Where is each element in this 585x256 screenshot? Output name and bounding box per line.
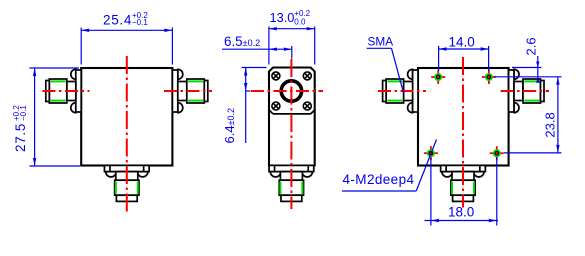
right SMA connector view1 [172, 69, 207, 112]
dimension 27.5 dim line [34, 68, 36, 166]
flange tab notch left view2 [274, 165, 276, 171]
dimension 6.5 dim line with text landing [222, 48, 292, 50]
centerline vertical view1 [126, 56, 128, 214]
dimension 14.0 extension lines [438, 46, 440, 71]
barrel section right [514, 82, 523, 101]
dimension 13.0 dim line [269, 28, 315, 30]
dimension 14.0 dim line [439, 48, 489, 50]
cap left [383, 81, 387, 102]
ear bottom-left [408, 103, 413, 113]
svg-text:23.8: 23.8 [543, 112, 558, 137]
screw circle top-right [303, 72, 311, 80]
cap bottom view2 [281, 195, 302, 201]
screw circle bottom-right [303, 102, 311, 110]
bottom SMA connector view1 [104, 165, 149, 201]
mounting hole top-right [482, 70, 496, 84]
dimension 13.0 extension lines [268, 27, 270, 65]
ear bottom-left [71, 103, 76, 113]
dimension 18.0 extension lines [430, 158, 432, 226]
ear top-right [178, 69, 183, 79]
nut section bottom view1 [115, 180, 139, 195]
nut section right [523, 79, 541, 103]
green nut edges left connector [51, 80, 66, 82]
bottom flange strip view1 [104, 165, 149, 171]
barrel section left [404, 82, 413, 101]
cap left [46, 81, 50, 102]
ear bottom-right view1 [137, 172, 148, 177]
svg-text:−0.1: −0.1 [132, 18, 148, 27]
ear bottom-left view3 [442, 172, 453, 177]
dimension 25.4 dim line [81, 29, 172, 31]
svg-text:0.0: 0.0 [294, 18, 306, 27]
central SMA ring view2 [281, 81, 301, 101]
screw circle top-left [272, 72, 280, 80]
flange tab notch right view2 [307, 165, 309, 171]
centerline horizontal right connector view1 [164, 90, 212, 92]
dimension text 27.5 +0.2/-0.1 rotated [12, 105, 28, 152]
barrel section bottom view3 [452, 172, 474, 181]
green nut edges bottom connector view3 [451, 182, 453, 194]
barrel section left [67, 82, 76, 101]
dimension 23.8 dim line [557, 77, 559, 153]
svg-text:2.6: 2.6 [524, 37, 539, 55]
green nut edges bottom connector view1 [115, 182, 117, 194]
centerline horizontal view2 [251, 90, 323, 92]
ear bottom-left view2 [270, 172, 281, 177]
body view1 [81, 68, 172, 166]
dimension 27.5 extension lines [30, 67, 80, 69]
centerline horizontal left connector view1 [43, 90, 90, 92]
dimension 2.6/23.8 extension line hole row [494, 76, 562, 78]
dimension 2.6 dim line [537, 56, 539, 80]
bottom SMA connector view2 [269, 165, 314, 201]
cap bottom view3 [453, 195, 474, 201]
cap right [204, 81, 208, 102]
svg-text:SMA: SMA [368, 35, 394, 49]
mounting hole bottom-left [424, 146, 438, 160]
dimension 2.6 extension line body top [512, 67, 542, 69]
dimension 6.4 dim line [245, 68, 247, 144]
centerline horizontal right connector view3 [501, 90, 549, 92]
extension line center view2 [291, 46, 293, 59]
green nut edges right connector [188, 80, 203, 82]
bottom flange strip view2 [269, 165, 314, 171]
nut section bottom view2 [279, 180, 303, 195]
arrow landing at centerline [246, 90, 251, 92]
barrel section bottom view1 [116, 172, 138, 181]
nut section left [386, 79, 404, 103]
flange plate right [509, 70, 514, 112]
ear bottom-right [178, 103, 183, 113]
green nut edges right connector view3 [524, 80, 539, 82]
nut section bottom view3 [451, 180, 475, 195]
body outline view2 with chamfered flange corners [269, 68, 315, 166]
ear bottom-right view3 [474, 172, 485, 177]
flange plate left [76, 70, 81, 112]
ear top-left [71, 69, 76, 79]
green nut edges left connector view3 [387, 80, 402, 82]
right SMA connector view3 [509, 69, 544, 112]
dimension 18.0 dim line [425, 220, 499, 222]
centerline horizontal left connector view3 [378, 90, 426, 92]
nut section right [187, 79, 205, 103]
4-M2deep4 leader line [416, 140, 436, 192]
ear top-right [514, 69, 519, 79]
ear bottom-right view2 [302, 172, 313, 177]
svg-text:27.5: 27.5 [13, 123, 28, 152]
dimension text 2.6 rotated [524, 37, 539, 55]
centerline vertical view3 [462, 57, 464, 208]
flange plate left [413, 70, 418, 112]
dimension 25.4 extension lines [80, 28, 82, 65]
bottom flange strip view3 [441, 165, 486, 171]
flange tab notch left view1 [109, 165, 111, 171]
screw circle bottom-left [272, 102, 280, 110]
mounting hole top-left [431, 70, 445, 84]
barrel section right [178, 82, 187, 101]
svg-text:18.0: 18.0 [448, 205, 474, 220]
flange tab notch left view3 [445, 165, 447, 171]
cap bottom view1 [116, 195, 137, 201]
barrel section bottom view2 [280, 172, 302, 181]
dimension text 6.4±0.2 rotated [222, 108, 237, 144]
SMA leader line [392, 48, 404, 92]
left SMA connector view1 [46, 69, 81, 112]
dimension 6.4 extension line top [242, 67, 267, 69]
dimension 23.8 extension line bottom [504, 152, 562, 154]
ear bottom-left view1 [106, 172, 117, 177]
flange bottom chamfer left [269, 110, 273, 114]
4-M2deep4 underline [342, 190, 416, 192]
dimension text 23.8 rotated [543, 112, 558, 137]
body view3 [418, 68, 509, 166]
green nut edges bottom connector view2 [279, 182, 281, 194]
bottom SMA connector view3 [441, 165, 486, 201]
svg-text:25.4: 25.4 [103, 13, 132, 28]
ear bottom-right [514, 103, 519, 113]
SMA underline [367, 47, 392, 49]
mounting hole bottom-right [490, 146, 504, 160]
left SMA connector view3 [383, 69, 418, 112]
flange tab notch right view1 [143, 165, 145, 171]
flange bottom edge view2 [273, 113, 311, 115]
cap right [541, 81, 545, 102]
flange bottom chamfer right [311, 110, 315, 114]
nut section left [49, 79, 67, 103]
ear top-left [408, 69, 413, 79]
flange plate right [172, 70, 177, 112]
svg-text:13.0: 13.0 [270, 10, 295, 25]
flange tab notch right view3 [479, 165, 481, 171]
svg-text:4-M2deep4: 4-M2deep4 [343, 172, 415, 187]
svg-text:14.0: 14.0 [449, 35, 475, 50]
svg-text:−0.1: −0.1 [19, 105, 28, 121]
centerline vertical view2 [290, 59, 292, 209]
